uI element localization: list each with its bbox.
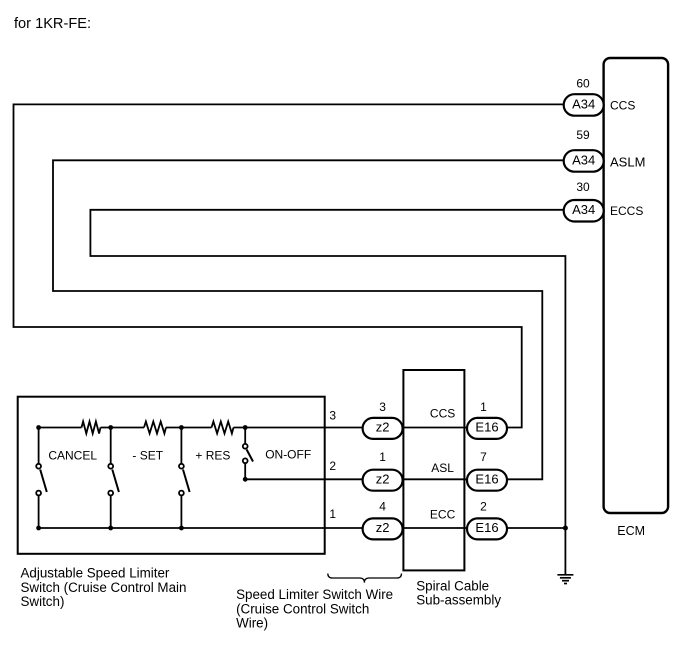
node ON-OFF bottom bbox=[243, 477, 248, 482]
wire row2 (ON-OFF to z2 pin 1) bbox=[245, 478, 363, 480]
svg-text:1: 1 bbox=[379, 450, 386, 464]
svg-text:1: 1 bbox=[480, 400, 487, 414]
wire ASLM loop (A34 pin 59 to E16 pin 7) bbox=[53, 160, 564, 479]
svg-text:ECC: ECC bbox=[430, 507, 456, 521]
svg-text:4: 4 bbox=[379, 499, 386, 513]
connector E16 row 1 bbox=[467, 400, 507, 439]
svg-text:7: 7 bbox=[480, 450, 487, 464]
svg-text:for 1KR-FE:: for 1KR-FE: bbox=[14, 16, 91, 32]
caption Spiral Cable Sub-assembly bbox=[416, 579, 501, 608]
wire CCS loop (A34 pin 60 to E16 pin 1) bbox=[14, 104, 564, 427]
svg-text:3: 3 bbox=[379, 400, 386, 414]
svg-text:A34: A34 bbox=[572, 96, 595, 111]
connector A34 pin 59 bbox=[564, 128, 604, 172]
svg-text:z2: z2 bbox=[376, 520, 390, 535]
svg-text:CANCEL: CANCEL bbox=[48, 448, 97, 462]
svg-text:Speed Limiter Switch Wire: Speed Limiter Switch Wire bbox=[236, 587, 393, 602]
svg-text:z2: z2 bbox=[376, 471, 390, 486]
connector z2 row 1 bbox=[363, 400, 403, 439]
svg-text:Sub-assembly: Sub-assembly bbox=[416, 592, 501, 607]
svg-text:ON-OFF: ON-OFF bbox=[265, 447, 311, 461]
node bottom bus 1 bbox=[36, 526, 41, 531]
svg-text:Spiral Cable: Spiral Cable bbox=[416, 579, 489, 594]
connector A34 pin 60 bbox=[564, 77, 604, 116]
svg-text:A34: A34 bbox=[572, 152, 595, 167]
wire z2 row2 to E16 row2 bbox=[403, 478, 467, 480]
caption Speed Limiter Switch Wire bbox=[236, 587, 393, 631]
wire top bus segments bbox=[39, 427, 363, 429]
connector E16 row 2 bbox=[467, 450, 507, 491]
connector A34 pin 30 bbox=[564, 180, 604, 222]
resistor R3 bbox=[212, 422, 234, 434]
svg-text:ECCS: ECCS bbox=[610, 204, 643, 218]
wire E16 pin 2 to junction bbox=[507, 527, 565, 529]
svg-text:3: 3 bbox=[329, 409, 336, 423]
connector z2 row 2 bbox=[363, 450, 403, 491]
svg-text:+ RES: + RES bbox=[195, 448, 230, 462]
node bottom bus 2 bbox=[108, 526, 113, 531]
wire ECCS loop (A34 pin 30 to ground via junction) bbox=[90, 210, 565, 575]
svg-text:CCS: CCS bbox=[610, 99, 635, 113]
wire z2 row1 to E16 row1 bbox=[403, 427, 467, 429]
ground bbox=[557, 575, 573, 584]
connector E16 row 3 bbox=[467, 499, 507, 539]
svg-text:1: 1 bbox=[329, 507, 336, 521]
junction node bbox=[563, 526, 568, 531]
node top bus 1 bbox=[36, 425, 41, 430]
svg-text:ASL: ASL bbox=[431, 461, 454, 475]
switch box (Adjustable Speed Limiter Switch) bbox=[18, 397, 325, 554]
switch ON-OFF bbox=[243, 428, 253, 480]
svg-text:(Cruise Control Switch: (Cruise Control Switch bbox=[236, 601, 369, 616]
svg-text:60: 60 bbox=[576, 77, 590, 91]
svg-text:ASLM: ASLM bbox=[610, 155, 645, 170]
svg-text:Wire): Wire) bbox=[236, 615, 268, 630]
svg-text:E16: E16 bbox=[475, 471, 498, 486]
svg-text:Adjustable Speed Limiter: Adjustable Speed Limiter bbox=[21, 566, 170, 581]
svg-text:A34: A34 bbox=[572, 202, 595, 217]
resistor R2 bbox=[144, 422, 166, 434]
svg-text:E16: E16 bbox=[475, 520, 498, 535]
wire z2 row3 to E16 row3 bbox=[403, 527, 467, 529]
svg-text:2: 2 bbox=[480, 499, 487, 513]
node bottom bus 3 bbox=[179, 526, 184, 531]
wire bottom bus bbox=[39, 527, 363, 529]
node top bus 4 bbox=[243, 425, 248, 430]
node top bus 3 bbox=[179, 425, 184, 430]
svg-text:CCS: CCS bbox=[430, 407, 455, 421]
svg-text:ECM: ECM bbox=[617, 524, 645, 538]
svg-text:z2: z2 bbox=[376, 420, 390, 435]
svg-text:2: 2 bbox=[329, 459, 336, 473]
svg-text:Switch (Cruise Control Main: Switch (Cruise Control Main bbox=[21, 580, 187, 595]
connector z2 row 3 bbox=[363, 499, 403, 539]
resistor R1 bbox=[82, 422, 101, 434]
ECM box U1 bbox=[604, 58, 669, 513]
switch - SET bbox=[108, 428, 119, 529]
switch + RES bbox=[179, 428, 190, 529]
caption Adjustable Speed Limiter Switch bbox=[21, 566, 187, 610]
svg-text:Switch): Switch) bbox=[21, 594, 65, 609]
svg-text:- SET: - SET bbox=[132, 448, 163, 462]
brace (speed limiter switch wire) bbox=[328, 574, 402, 583]
node top bus 2 bbox=[108, 425, 113, 430]
svg-text:E16: E16 bbox=[475, 420, 498, 435]
spiral cable box bbox=[403, 370, 464, 570]
svg-text:59: 59 bbox=[576, 128, 590, 142]
switch CANCEL bbox=[36, 428, 47, 529]
svg-text:30: 30 bbox=[576, 180, 590, 194]
